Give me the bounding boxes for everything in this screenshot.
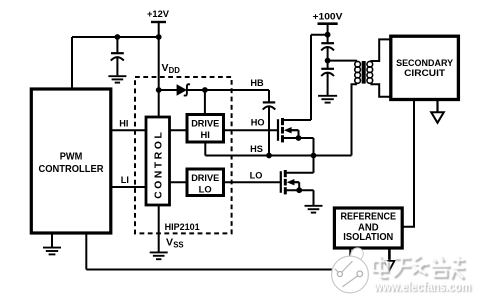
capacitor C4 [321, 42, 334, 44]
wire bottom ground bus [86, 269, 350, 271]
ground G5 [305, 205, 323, 207]
wire VDD vertical rail [158, 22, 160, 117]
watermark glyphs (stylized CJK brand) [375, 258, 466, 280]
transistor Q2 body arrow [287, 179, 295, 185]
svg-text:HO: HO [251, 118, 265, 128]
capacitor C1 [116, 37, 118, 53]
wire CONTROL to DRIVE HI [170, 129, 188, 131]
HIP2101 dashed boundary [135, 77, 232, 233]
svg-text:+100V: +100V [313, 12, 344, 22]
svg-text:www.elecfans.com: www.elecfans.com [373, 280, 471, 294]
node HB junction [202, 87, 208, 93]
wire CONTROL to DRIVE LO [170, 181, 188, 183]
wire left vertical to PWM [71, 37, 73, 90]
capacitor C3 bootstrap [268, 90, 270, 102]
wire VSS pin [158, 205, 160, 252]
wire secondary bottom to box [370, 84, 390, 97]
node diode anode junction [156, 87, 162, 93]
svg-text:LI: LI [121, 175, 129, 185]
svg-text:HS: HS [250, 144, 263, 154]
wire secondary box bottom to reference [402, 100, 414, 227]
svg-text:CIRCUIT: CIRCUIT [404, 68, 445, 79]
DRIVE HI box [187, 115, 224, 143]
wire DRIVE HI bottom pin [204, 142, 206, 156]
wire secondary top to box [370, 39, 390, 61]
wire HI [111, 129, 146, 131]
reference and isolation box [334, 208, 402, 248]
wire DRIVE HI top pin [204, 90, 206, 115]
svg-text:V: V [166, 237, 173, 249]
svg-text:V: V [162, 62, 169, 74]
svg-text:LO: LO [199, 183, 212, 194]
wire Q1 drain [284, 119, 311, 121]
svg-text:LO: LO [250, 171, 263, 181]
svg-text:DRIVE: DRIVE [191, 172, 219, 183]
wire HO [224, 129, 278, 131]
node transformer tap [325, 58, 331, 64]
transistor Q1 body arrow [284, 127, 292, 133]
capacitor C5 [321, 68, 334, 70]
svg-text:+12V: +12V [147, 9, 170, 19]
transformer T1 primary winding [355, 61, 361, 67]
svg-text:DRIVE: DRIVE [191, 118, 219, 129]
wire top-left horizontal [72, 36, 159, 38]
ground G1 [108, 75, 126, 77]
node C3 to HS [266, 153, 272, 159]
wire to diode [159, 89, 177, 91]
ground G3 [150, 251, 168, 253]
wire Q2 drain [287, 172, 314, 174]
ground G4 [318, 95, 337, 97]
wire diode cathode to HB [187, 89, 269, 91]
wire secondary chassis stub [436, 100, 438, 112]
svg-text:HIP2101: HIP2101 [165, 222, 201, 233]
wire LO [224, 181, 281, 183]
svg-text:HB: HB [250, 78, 264, 88]
node +100V branch [325, 32, 331, 38]
node HS switch junction [311, 153, 317, 159]
svg-text:ISOLATION: ISOLATION [343, 232, 393, 243]
svg-text:CONTROL: CONTROL [153, 132, 164, 199]
wire PWM bottom pin 2 [85, 233, 87, 270]
transistor Q1 gate bar [277, 119, 279, 141]
wire Q2 source [287, 189, 314, 191]
diode D1 (schottky) [177, 84, 187, 96]
node VDD rail tap [156, 34, 162, 40]
svg-text:DD: DD [169, 66, 181, 75]
transformer T1 core [362, 61, 366, 84]
+12V supply bar [151, 21, 166, 23]
chassis ground (open triangle) [431, 112, 444, 123]
DRIVE LO box [187, 169, 224, 196]
svg-text:PWM: PWM [60, 150, 83, 162]
transistor Q1 channel [281, 118, 284, 125]
transistor Q2 gate bar [280, 171, 282, 193]
ground G2 [43, 247, 61, 249]
svg-text:HI: HI [119, 118, 128, 128]
wire LI [111, 186, 146, 188]
+100V supply bar [318, 22, 338, 25]
wire +100V rail [327, 24, 329, 43]
svg-text:HI: HI [201, 129, 210, 140]
wire primary bottom to HS [352, 84, 358, 155]
wire PWM bottom pin 1 [51, 233, 53, 247]
watermark text www.elecfans.com [373, 280, 472, 295]
wire branch to Q1 drain [311, 34, 328, 36]
PWM controller box U1 [31, 89, 111, 233]
node C1 tap [115, 34, 121, 40]
wire REFERENCE pin 2 [388, 248, 391, 260]
control block box [146, 117, 170, 205]
transformer T1 secondary winding [367, 61, 373, 67]
svg-text:SS: SS [173, 241, 183, 250]
svg-text:REFERENCE: REFERENCE [341, 212, 397, 223]
chassis ground (open triangle) pin2 [384, 261, 394, 270]
transistor Q2 channel [284, 170, 287, 177]
wire REFERENCE pin 1 [349, 248, 351, 270]
wire HS [205, 155, 351, 157]
secondary circuit box [391, 36, 459, 99]
wire to transformer primary top [328, 60, 357, 62]
svg-text:CONTROLLER: CONTROLLER [39, 163, 104, 175]
wire Q1 source [284, 137, 314, 139]
